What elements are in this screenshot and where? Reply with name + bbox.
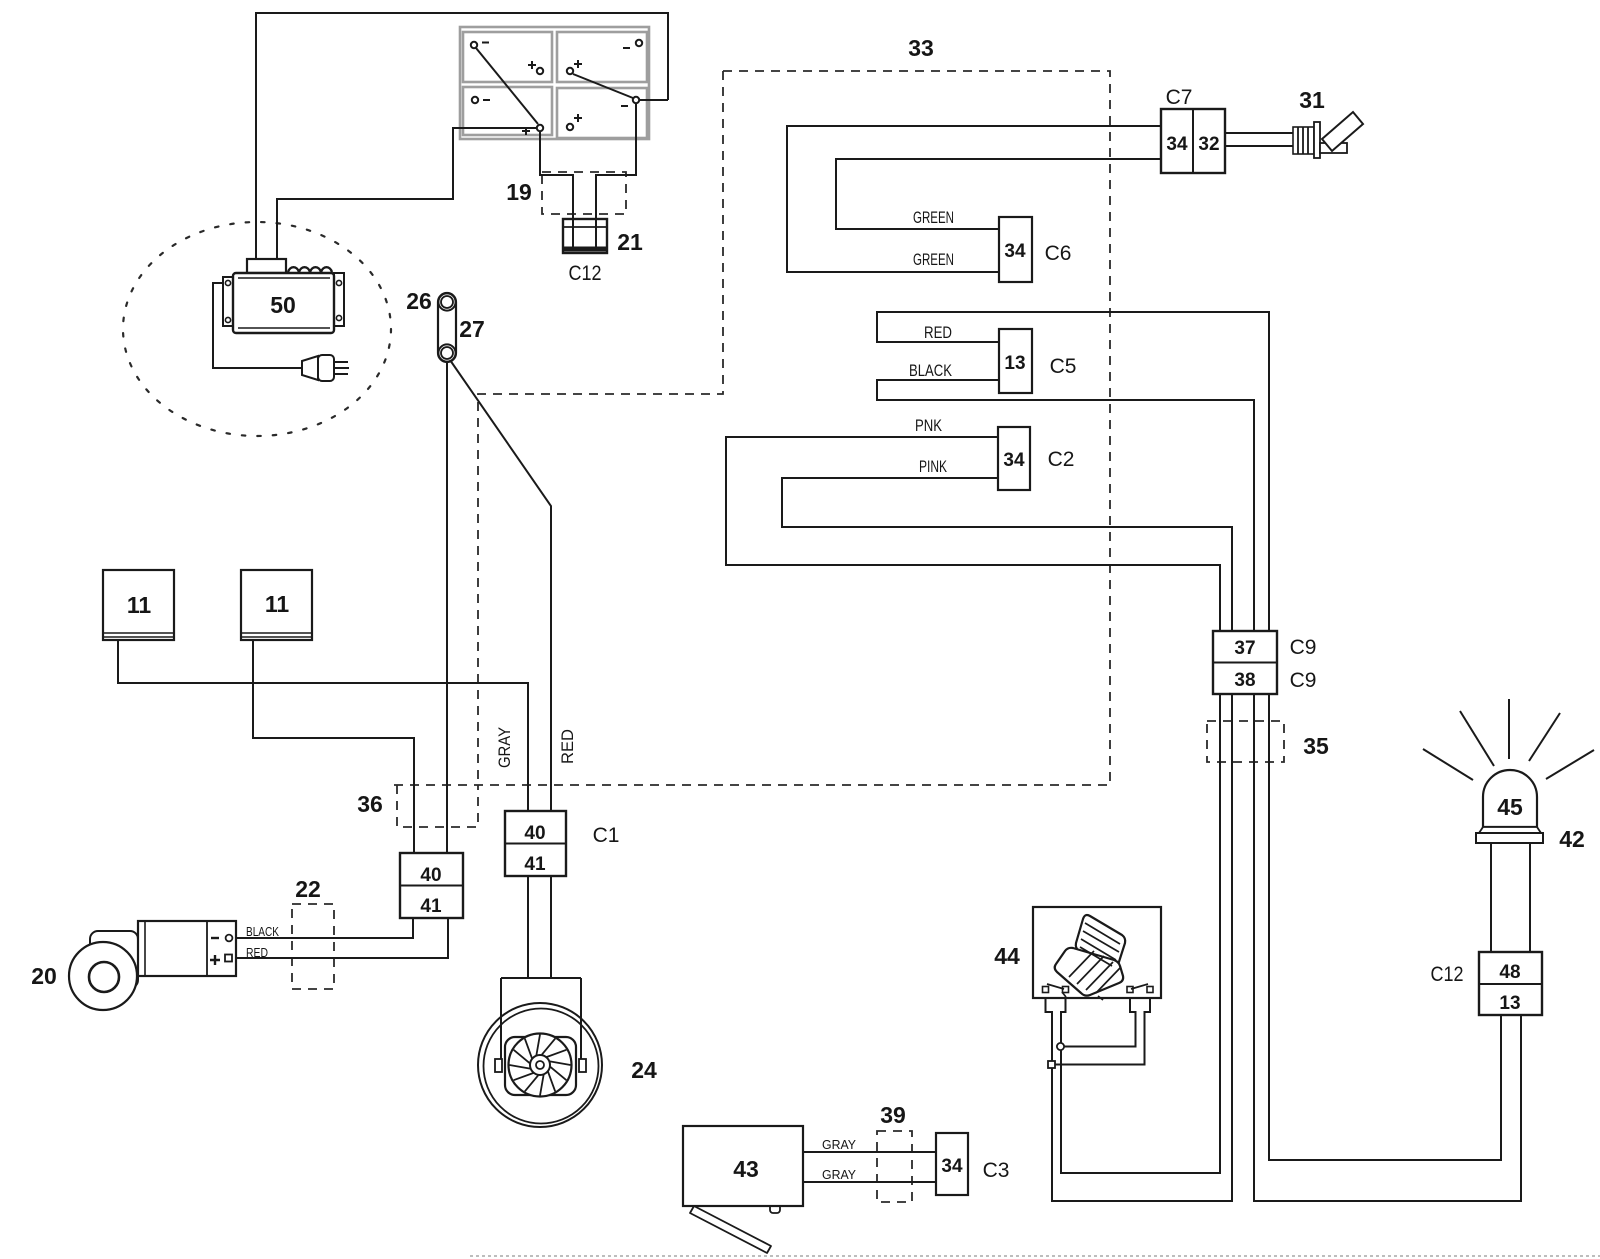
svg-text:13: 13 (1499, 993, 1520, 1014)
svg-text:C6: C6 (1045, 242, 1072, 265)
battery pack 19 (gray cases) (460, 27, 649, 139)
wire: C5 RED loop through C9 to beacon connector (877, 312, 1501, 1160)
svg-text:C2: C2 (1048, 448, 1075, 471)
wire: fuse link down to connector 40/41 (446, 362, 448, 855)
dashed harness box 33 (390, 71, 1110, 785)
connector 40/41 (vac motor) (400, 853, 463, 918)
svg-text:34: 34 (941, 1156, 963, 1177)
dotted charger boundary (123, 222, 391, 436)
svg-text:26: 26 (406, 288, 432, 314)
spotlight 43 (683, 1102, 906, 1253)
svg-text:43: 43 (733, 1156, 759, 1182)
svg-text:11: 11 (127, 592, 152, 618)
svg-text:37: 37 (1234, 638, 1255, 659)
dashed box 36 (397, 785, 478, 827)
vac motor 20 (31, 921, 279, 1010)
wire: BL+ down to connector 21 (540, 132, 573, 248)
svg-text:45: 45 (1497, 794, 1523, 820)
fan 24 (478, 978, 657, 1127)
svg-text:BLACK: BLACK (909, 361, 953, 380)
wire: BR- terminal to main wire and down to connector 21 (596, 100, 668, 248)
dashed box 39 (877, 1131, 912, 1202)
connector C9 37/38 (1213, 631, 1329, 759)
svg-text:C9: C9 (1290, 669, 1317, 692)
svg-text:33: 33 (908, 35, 934, 61)
svg-text:RED: RED (246, 946, 268, 960)
svg-text:RED: RED (558, 729, 577, 764)
wire: C6 green loop outer to C7 (787, 126, 1161, 272)
svg-text:GRAY: GRAY (822, 1168, 857, 1182)
dashed box 35 (1207, 721, 1284, 762)
wire: C2 pink loop 2 through C9 to seat switch (782, 478, 1232, 1201)
svg-text:20: 20 (31, 963, 57, 989)
svg-text:GRAY: GRAY (822, 1138, 857, 1152)
fuse link 26/27 (406, 288, 485, 362)
relay 11b (241, 570, 312, 640)
wire: relay 11b to connector 40/41 (253, 640, 414, 855)
seat switch 44 (994, 907, 1161, 1068)
svg-text:13: 13 (1004, 353, 1025, 374)
svg-text:11: 11 (265, 591, 290, 617)
connector C1 40/41 (495, 727, 619, 876)
svg-text:PINK: PINK (919, 457, 947, 476)
svg-text:40: 40 (420, 865, 441, 886)
wire: beacon pole leads (1491, 843, 1530, 954)
battery terminals (471, 40, 642, 131)
svg-text:39: 39 (880, 1102, 906, 1128)
dashed box 19 (battery outline) (542, 172, 626, 214)
connector C6 34 (913, 208, 1071, 282)
wire: C6 green loop inner to C7 (836, 159, 1161, 229)
svg-text:PNK: PNK (915, 416, 942, 435)
svg-text:27: 27 (459, 316, 485, 342)
dashed box 22 (292, 904, 334, 989)
svg-text:22: 22 (295, 876, 321, 902)
wire: spotlight 43 GRAY pair to C3 (803, 1152, 936, 1182)
wire: seat switch pin leads (1046, 992, 1066, 1061)
wire: BL+ to charger second lead (277, 128, 536, 259)
svg-text:44: 44 (994, 943, 1020, 969)
svg-text:32: 32 (1198, 134, 1219, 155)
bottom page edge line (470, 1255, 1600, 1257)
wire: relay 11a to connector C1 (GRAY) (118, 640, 528, 813)
svg-text:19: 19 (506, 179, 532, 205)
svg-text:34: 34 (1004, 241, 1026, 262)
svg-text:RED: RED (924, 323, 952, 342)
svg-text:GREEN: GREEN (913, 250, 954, 269)
svg-text:34: 34 (1166, 134, 1188, 155)
svg-text:35: 35 (1303, 733, 1329, 759)
svg-text:C12: C12 (569, 262, 602, 285)
svg-text:34: 34 (1003, 450, 1025, 471)
svg-text:42: 42 (1559, 826, 1585, 852)
svg-text:40: 40 (524, 823, 545, 844)
wire: main positive from battery to charger (256, 13, 668, 259)
connector C12 (item 21) (562, 219, 643, 285)
wire: battery jumper TR+ to BR- (573, 74, 633, 98)
svg-text:36: 36 (357, 791, 383, 817)
connector C3 34 (936, 1133, 1009, 1195)
connector C7 34|32 (1161, 86, 1225, 173)
svg-text:C1: C1 (593, 824, 620, 847)
svg-text:41: 41 (420, 896, 442, 917)
wire: C2 pink loop through C9 to seat switch (726, 437, 1220, 1173)
wire: C5 BLACK loop through C9 to beacon connector (877, 380, 1521, 1201)
svg-text:C12: C12 (1431, 963, 1464, 986)
svg-text:C5: C5 (1050, 355, 1077, 378)
connector C5 13 (909, 323, 1076, 393)
beacon 45/42 (1423, 699, 1594, 852)
wire: connector 40/41 to vac motor BLACK/RED (233, 916, 448, 958)
svg-text:31: 31 (1299, 87, 1325, 113)
wire: connector C1 to fan (528, 874, 551, 979)
svg-text:GRAY: GRAY (495, 727, 514, 768)
svg-text:41: 41 (524, 854, 546, 875)
svg-text:GREEN: GREEN (913, 208, 954, 227)
svg-text:38: 38 (1234, 670, 1255, 691)
svg-text:48: 48 (1499, 962, 1520, 983)
wire: charger mains cord (213, 283, 302, 368)
svg-text:C3: C3 (983, 1159, 1010, 1182)
svg-text:21: 21 (617, 229, 643, 255)
relay 11a (103, 570, 174, 640)
svg-text:C9: C9 (1290, 636, 1317, 659)
battery polarity marks (482, 43, 630, 136)
mains plug (302, 356, 318, 380)
svg-text:BLACK: BLACK (246, 925, 280, 939)
svg-text:50: 50 (270, 292, 296, 318)
wire: C7 to key switch 31 (1225, 133, 1293, 146)
svg-text:C7: C7 (1166, 86, 1193, 109)
svg-text:24: 24 (631, 1057, 657, 1083)
connector C2 34 (915, 416, 1074, 490)
wire: battery jumper TL- to BL+ (476, 48, 538, 124)
charger 50 (223, 259, 349, 381)
wire: fuse link diagonal RED to connector C1 (450, 360, 551, 813)
key switch 31 (1293, 87, 1363, 158)
connector C12 48/13 (beacon) (1431, 952, 1543, 1015)
